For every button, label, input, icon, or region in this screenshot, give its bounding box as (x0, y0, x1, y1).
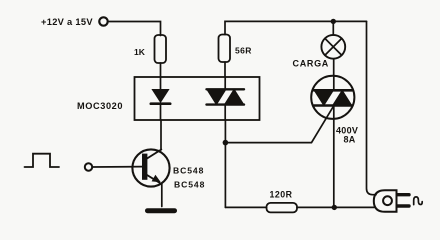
lamp CARGA (321, 35, 345, 59)
input terminal (85, 163, 92, 170)
svg-text:56R: 56R (235, 46, 252, 56)
pulse waveform symbol (25, 154, 60, 167)
photo-triac inside U1 (207, 77, 245, 120)
svg-text:BC548: BC548 (174, 180, 205, 190)
svg-text:BC548: BC548 (173, 165, 204, 175)
junction node gate (223, 140, 229, 146)
svg-text:+12V a 15V: +12V a 15V (41, 17, 93, 27)
svg-text:MOC3020: MOC3020 (77, 101, 123, 111)
svg-text:CARGA: CARGA (293, 59, 330, 69)
junction node MT1-bottom (332, 205, 337, 210)
junction node lamp top (331, 19, 336, 24)
gate wire (225, 106, 333, 142)
wire triac MT1 down (333, 119, 335, 207)
triac Q2 (311, 76, 354, 119)
wire R1 to U1 LED anode (160, 63, 162, 77)
bottom rail right (297, 206, 374, 208)
resistor R1 1K (155, 35, 167, 63)
wire U1 to R2 (224, 62, 226, 77)
terminal +12V (99, 17, 107, 25)
emitter wire (161, 184, 163, 207)
wire +12V to R1 (108, 22, 161, 36)
bottom rail left (225, 206, 266, 208)
optocoupler U1 box (135, 77, 260, 120)
LED D1 inside U1 (151, 77, 170, 120)
collector wire (160, 120, 162, 150)
svg-text:1K: 1K (134, 47, 146, 57)
resistor R3 120R (267, 203, 298, 213)
ground (148, 208, 175, 213)
resistor R2 56R (219, 35, 231, 63)
right rail wire (367, 21, 377, 194)
base wire (92, 166, 142, 168)
wire U1 triac to bottom rail (224, 120, 226, 207)
transistor Q1 (132, 149, 169, 186)
wire junction to lamp (332, 21, 334, 35)
svg-text:120R: 120R (270, 190, 293, 200)
plug P1 (374, 190, 409, 212)
top rail wire R2 to right rail (225, 21, 367, 34)
AC symbol (414, 197, 423, 205)
svg-text:8A: 8A (344, 135, 356, 145)
wire lamp to triac (333, 59, 335, 76)
